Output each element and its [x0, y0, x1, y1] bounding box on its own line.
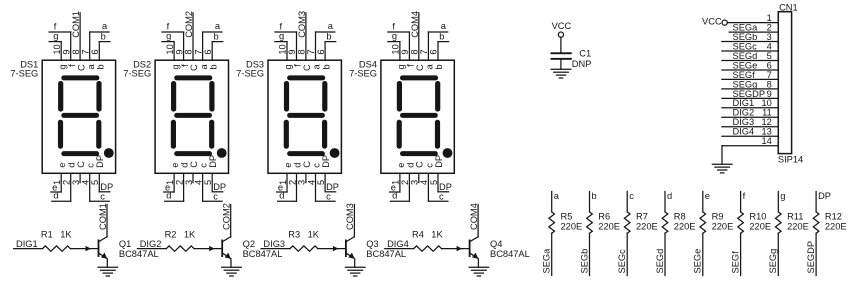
svg-text:a: a	[86, 63, 96, 69]
svg-text:g: g	[279, 31, 284, 41]
svg-text:4: 4	[767, 41, 772, 51]
svg-text:b: b	[96, 64, 106, 69]
svg-text:14: 14	[761, 136, 771, 146]
svg-text:SEGDP: SEGDP	[806, 241, 816, 274]
svg-text:g: g	[780, 191, 785, 201]
svg-text:DIG4: DIG4	[733, 127, 755, 137]
svg-text:c: c	[424, 163, 434, 168]
svg-text:a: a	[199, 63, 209, 69]
svg-text:Q2: Q2	[243, 239, 255, 249]
svg-text:DNP: DNP	[572, 59, 592, 69]
svg-text:R8: R8	[674, 211, 686, 221]
svg-text:d: d	[667, 191, 672, 201]
svg-text:d: d	[53, 191, 58, 201]
svg-text:c: c	[439, 191, 444, 201]
svg-text:e: e	[283, 163, 293, 168]
svg-text:8: 8	[410, 49, 420, 54]
svg-text:C: C	[76, 64, 86, 71]
svg-text:C1: C1	[579, 49, 591, 59]
svg-text:1K: 1K	[308, 229, 320, 239]
svg-text:SEGd: SEGd	[655, 249, 665, 274]
svg-text:3: 3	[184, 180, 194, 185]
svg-text:BC847AL: BC847AL	[490, 249, 530, 259]
svg-text:SEGa: SEGa	[542, 248, 552, 274]
svg-text:COM1: COM1	[98, 203, 108, 230]
svg-text:C: C	[189, 161, 199, 168]
svg-text:10: 10	[52, 44, 62, 54]
svg-text:10: 10	[761, 98, 771, 108]
svg-text:7: 7	[193, 49, 203, 54]
svg-text:a: a	[312, 63, 322, 69]
svg-text:c: c	[326, 191, 331, 201]
svg-text:1K: 1K	[184, 229, 196, 239]
svg-text:5: 5	[203, 180, 213, 185]
svg-text:5: 5	[767, 51, 772, 61]
svg-text:4: 4	[81, 180, 91, 185]
svg-text:13: 13	[761, 127, 771, 137]
svg-text:R3: R3	[288, 229, 300, 239]
svg-text:b: b	[101, 31, 106, 41]
svg-text:1: 1	[391, 180, 401, 185]
svg-text:c: c	[213, 191, 218, 201]
svg-text:DIG2: DIG2	[140, 239, 162, 249]
svg-text:6: 6	[429, 49, 439, 54]
svg-text:220E: 220E	[636, 221, 658, 231]
svg-text:a: a	[328, 21, 334, 31]
svg-text:COM2: COM2	[184, 11, 194, 38]
svg-text:Q1: Q1	[119, 239, 131, 249]
svg-text:COM3: COM3	[297, 11, 307, 38]
svg-text:R6: R6	[598, 211, 610, 221]
svg-text:g: g	[53, 31, 58, 41]
svg-text:BC847AL: BC847AL	[243, 249, 283, 259]
svg-text:COM4: COM4	[410, 11, 420, 38]
svg-text:SIP14: SIP14	[778, 154, 803, 164]
svg-text:SEGc: SEGc	[733, 41, 758, 51]
svg-text:C: C	[189, 64, 199, 71]
svg-text:R12: R12	[825, 211, 842, 221]
svg-text:e: e	[396, 163, 406, 168]
svg-text:1: 1	[165, 180, 175, 185]
svg-text:d: d	[279, 191, 284, 201]
svg-text:7: 7	[419, 49, 429, 54]
svg-text:R2: R2	[165, 229, 177, 239]
svg-text:b: b	[214, 31, 219, 41]
svg-text:b: b	[321, 64, 331, 69]
svg-text:1: 1	[52, 180, 62, 185]
svg-text:1: 1	[278, 180, 288, 185]
svg-text:5: 5	[429, 180, 439, 185]
svg-text:COM1: COM1	[71, 11, 81, 38]
svg-text:a: a	[441, 21, 447, 31]
svg-text:g: g	[283, 64, 293, 69]
svg-text:a: a	[425, 63, 435, 69]
svg-text:g: g	[166, 31, 171, 41]
svg-text:7-SEG: 7-SEG	[236, 69, 264, 79]
svg-text:e: e	[705, 191, 710, 201]
svg-text:1: 1	[767, 13, 772, 23]
svg-text:COM3: COM3	[345, 203, 355, 230]
svg-text:CN1: CN1	[779, 2, 798, 12]
svg-text:R5: R5	[561, 211, 573, 221]
svg-text:b: b	[208, 64, 218, 69]
svg-text:BC847AL: BC847AL	[366, 249, 406, 259]
svg-text:b: b	[434, 64, 444, 69]
svg-text:7: 7	[306, 49, 316, 54]
svg-text:3: 3	[71, 180, 81, 185]
svg-text:d: d	[166, 191, 171, 201]
svg-text:4: 4	[419, 180, 429, 185]
svg-text:DIG3: DIG3	[263, 239, 285, 249]
svg-text:a: a	[102, 21, 108, 31]
svg-text:8: 8	[184, 49, 194, 54]
svg-text:b: b	[326, 31, 331, 41]
svg-text:R10: R10	[749, 211, 766, 221]
svg-text:220E: 220E	[749, 221, 771, 231]
svg-text:BC847AL: BC847AL	[119, 249, 159, 259]
svg-text:SEGg: SEGg	[733, 79, 758, 89]
svg-text:6: 6	[90, 49, 100, 54]
svg-text:C: C	[415, 161, 425, 168]
svg-text:DP: DP	[434, 155, 444, 168]
svg-text:220E: 220E	[787, 221, 809, 231]
svg-text:DIG1: DIG1	[733, 98, 755, 108]
svg-text:b: b	[592, 191, 597, 201]
svg-text:VCC: VCC	[552, 21, 572, 31]
svg-text:e: e	[170, 163, 180, 168]
svg-text:4: 4	[306, 180, 316, 185]
svg-text:DP: DP	[321, 155, 331, 168]
svg-text:SEGf: SEGf	[730, 251, 740, 274]
svg-text:DP: DP	[208, 155, 218, 168]
svg-text:g: g	[57, 64, 67, 69]
svg-text:220E: 220E	[825, 221, 847, 231]
svg-text:8: 8	[71, 49, 81, 54]
svg-text:7: 7	[767, 70, 772, 80]
svg-text:SEGb: SEGb	[733, 32, 758, 42]
svg-text:SEGg: SEGg	[768, 249, 778, 274]
svg-text:DIG1: DIG1	[16, 239, 38, 249]
svg-text:R4: R4	[412, 229, 424, 239]
svg-text:a: a	[554, 191, 560, 201]
svg-text:6: 6	[316, 49, 326, 54]
svg-text:3: 3	[410, 180, 420, 185]
svg-text:220E: 220E	[712, 221, 734, 231]
svg-text:3: 3	[297, 180, 307, 185]
svg-text:DP: DP	[95, 155, 105, 168]
svg-text:5: 5	[316, 180, 326, 185]
svg-text:SEGd: SEGd	[733, 51, 758, 61]
svg-text:8: 8	[297, 49, 307, 54]
svg-text:DIG2: DIG2	[733, 108, 755, 118]
svg-text:f: f	[743, 191, 746, 201]
svg-text:220E: 220E	[561, 221, 583, 231]
svg-text:SEGe: SEGe	[693, 249, 703, 274]
svg-text:1K: 1K	[60, 229, 72, 239]
svg-text:COM2: COM2	[222, 203, 232, 230]
svg-text:10: 10	[165, 44, 175, 54]
svg-text:7-SEG: 7-SEG	[349, 69, 377, 79]
svg-text:c: c	[100, 191, 105, 201]
svg-text:c: c	[199, 163, 209, 168]
svg-text:5: 5	[90, 180, 100, 185]
svg-text:c: c	[629, 191, 634, 201]
svg-text:R11: R11	[787, 211, 803, 221]
svg-text:SEGb: SEGb	[579, 249, 589, 274]
svg-text:3: 3	[767, 32, 772, 42]
svg-text:C: C	[415, 64, 425, 71]
svg-text:7: 7	[80, 49, 90, 54]
svg-text:11: 11	[762, 108, 772, 118]
svg-text:6: 6	[203, 49, 213, 54]
svg-text:e: e	[57, 163, 67, 168]
svg-text:4: 4	[193, 180, 203, 185]
svg-text:220E: 220E	[674, 221, 696, 231]
svg-text:Q4: Q4	[490, 239, 502, 249]
svg-text:g: g	[396, 64, 406, 69]
svg-text:R9: R9	[712, 211, 724, 221]
svg-text:c: c	[311, 163, 321, 168]
svg-text:SEGc: SEGc	[617, 249, 627, 274]
svg-text:7-SEG: 7-SEG	[123, 69, 151, 79]
svg-text:C: C	[76, 161, 86, 168]
svg-text:1K: 1K	[431, 229, 443, 239]
svg-text:R1: R1	[41, 229, 53, 239]
svg-text:a: a	[215, 21, 221, 31]
svg-text:g: g	[170, 64, 180, 69]
svg-text:d: d	[392, 191, 397, 201]
svg-text:R7: R7	[636, 211, 648, 221]
svg-text:C: C	[302, 161, 312, 168]
svg-text:b: b	[439, 31, 444, 41]
svg-text:DIG4: DIG4	[387, 239, 409, 249]
svg-text:Q3: Q3	[366, 239, 378, 249]
svg-text:COM4: COM4	[469, 203, 479, 230]
svg-text:C: C	[302, 64, 312, 71]
svg-text:7-SEG: 7-SEG	[10, 69, 38, 79]
svg-text:SEGf: SEGf	[733, 70, 756, 80]
svg-text:DP: DP	[818, 191, 831, 201]
svg-text:10: 10	[278, 44, 288, 54]
svg-text:10: 10	[391, 44, 401, 54]
svg-text:c: c	[86, 163, 96, 168]
svg-text:220E: 220E	[598, 221, 620, 231]
svg-text:g: g	[392, 31, 397, 41]
svg-text:8: 8	[767, 79, 772, 89]
svg-text:VCC: VCC	[702, 16, 722, 26]
